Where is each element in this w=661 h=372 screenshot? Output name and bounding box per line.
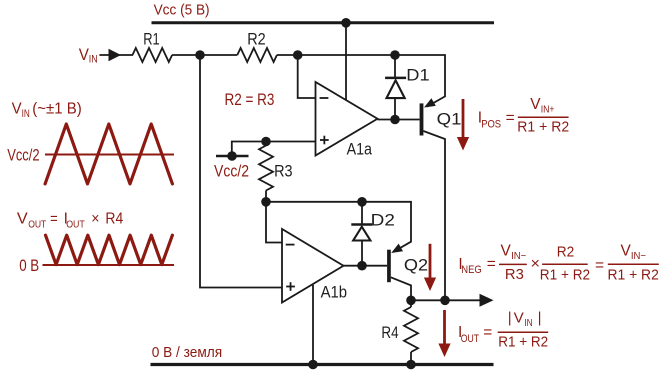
diode D1 [394, 55, 396, 77]
resistor R4 [410, 300, 412, 307]
svg-text:0 В / земля: 0 В / земля [152, 344, 223, 361]
transistor Q1 [420, 103, 424, 135]
Vcc/2 supply stub [216, 155, 249, 158]
svg-text:R2: R2 [247, 31, 266, 49]
svg-text:A1a: A1a [347, 141, 372, 159]
svg-text:|: | [538, 310, 542, 327]
svg-text:Vcc/2: Vcc/2 [214, 162, 249, 180]
node R4 bottom on rail [406, 360, 416, 370]
svg-text:IN−: IN− [631, 251, 646, 262]
svg-text:×: × [91, 211, 99, 228]
svg-text:R1 + R2: R1 + R2 [498, 335, 548, 351]
A1b output wire to Q2 base [344, 265, 388, 267]
svg-text:IN−: IN− [511, 251, 526, 262]
node Q1 collector / output junction [440, 296, 450, 306]
svg-text:OUT: OUT [28, 220, 46, 231]
INEG red arrow [429, 244, 432, 279]
svg-text:=: = [487, 256, 496, 273]
svg-text:(~±1 В): (~±1 В) [32, 101, 82, 118]
transistor Q2 [387, 250, 391, 283]
svg-text:=: = [50, 211, 58, 228]
svg-text:V: V [12, 101, 22, 118]
node A (after R1) [195, 50, 205, 60]
svg-text:R4: R4 [105, 211, 123, 228]
svg-text:R4: R4 [381, 324, 398, 342]
svg-text:Q1: Q1 [437, 111, 462, 129]
Q2 emitter arrowhead [391, 244, 403, 253]
wire R1 to node A [172, 54, 237, 56]
svg-text:A1b: A1b [321, 284, 348, 302]
svg-text:D2: D2 [371, 211, 395, 229]
node D2 top [357, 197, 367, 207]
svg-text:=: = [595, 257, 604, 274]
svg-text:R3: R3 [505, 267, 524, 283]
svg-text:R2: R2 [557, 245, 575, 261]
node R3 top [261, 137, 271, 147]
svg-text:V: V [621, 243, 632, 260]
waveform VOUT rectified wave [46, 235, 173, 264]
input arrow [109, 49, 122, 62]
svg-text:IN: IN [22, 108, 30, 120]
wire R3 node to D2 node and Q2 emitter [266, 202, 411, 252]
svg-text:IN+: IN+ [541, 105, 555, 116]
svg-text:V: V [79, 46, 89, 64]
output arrowhead [480, 294, 494, 307]
svg-text:OUT: OUT [461, 333, 480, 345]
A1a output wire to Q1 base [378, 119, 420, 121]
output node (Q2 collector / R4) [406, 296, 416, 306]
node D (A1a output / D1 anode / Q1 base) [390, 115, 400, 125]
svg-text:|: | [508, 310, 512, 327]
waveform Vcc/2 midline [45, 154, 174, 156]
input wire [99, 54, 133, 56]
output wire [411, 299, 480, 301]
svg-text:R1 + R2: R1 + R2 [517, 119, 569, 135]
svg-text:IN: IN [524, 318, 532, 329]
op-amp A1b [282, 229, 344, 303]
svg-text:IN: IN [89, 54, 98, 66]
svg-text:R1 + R2: R1 + R2 [540, 268, 590, 284]
svg-text:R3: R3 [274, 163, 293, 181]
svg-text:D1: D1 [406, 66, 429, 84]
svg-text:V: V [530, 96, 541, 113]
diode D2 [361, 202, 363, 224]
svg-text:=: = [483, 324, 492, 341]
node on Vcc rail [341, 18, 351, 28]
wire node A down and to A1b noninverting input [200, 55, 282, 288]
svg-text:V: V [514, 309, 525, 326]
svg-text:×: × [531, 256, 541, 273]
wire R2 to node C [277, 54, 395, 56]
Q1 emitter arrowhead [424, 98, 436, 107]
svg-text:V: V [17, 211, 28, 228]
svg-text:=: = [506, 110, 515, 127]
op-amp A1a [316, 82, 378, 156]
wire R3 bottom to A1b inverting input [266, 202, 282, 243]
svg-text:Vcc/2: Vcc/2 [7, 147, 39, 165]
waveform 0V line [43, 264, 175, 266]
node C (R2/D1/Q1 emitter junction) [390, 50, 400, 60]
svg-text:Vcc (5 В): Vcc (5 В) [154, 3, 210, 19]
node B (after R2) [293, 50, 303, 60]
node A1b output / D2 anode [357, 261, 367, 271]
svg-text:R2 = R3: R2 = R3 [225, 91, 275, 109]
svg-text:NEG: NEG [461, 264, 482, 276]
svg-text:Q2: Q2 [404, 257, 428, 275]
A1b ground pin wire [312, 285, 314, 365]
svg-text:V: V [501, 243, 512, 260]
node R3 bottom [261, 197, 271, 207]
wire node C to Q1 emitter [395, 55, 445, 107]
svg-text:OUT: OUT [66, 220, 85, 231]
wire Vcc rail to A1a power pin [345, 23, 347, 101]
waveform VIN triangle wave [45, 124, 172, 184]
resistor R1 [133, 48, 173, 62]
ground rail [151, 363, 494, 366]
svg-text:0 В: 0 В [19, 256, 39, 275]
wire node B down to A1a inverting input [298, 55, 316, 98]
Vcc rail [152, 21, 495, 24]
node A1b ground on rail [308, 360, 318, 370]
svg-text:POS: POS [481, 119, 501, 131]
resistor R3 [265, 142, 267, 146]
IOUT red arrow [443, 310, 446, 345]
resistor R2 [237, 48, 277, 62]
svg-text:R1 + R2: R1 + R2 [608, 268, 659, 284]
svg-text:R1: R1 [143, 31, 160, 49]
IPOS red arrow [462, 99, 465, 138]
